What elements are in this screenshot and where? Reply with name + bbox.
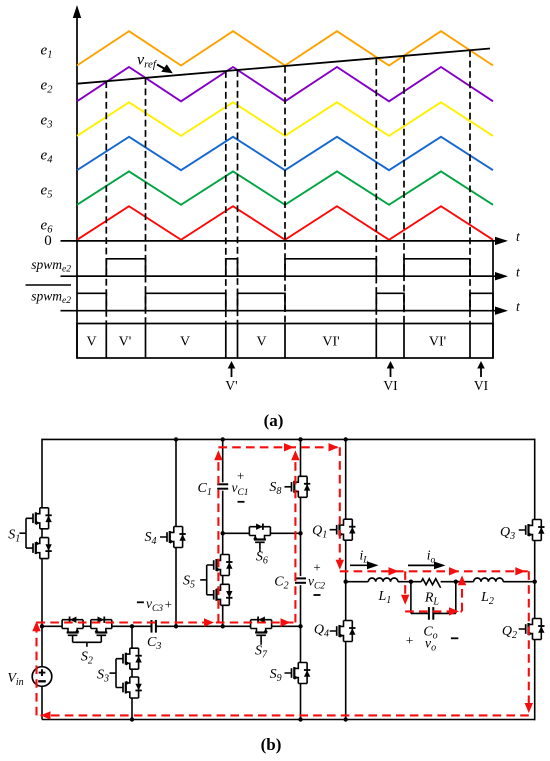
red path: RL loop up	[461, 579, 463, 612]
svg-text:V: V	[256, 335, 266, 350]
transistor S7 (body diode left)	[251, 617, 272, 643]
transistor S1 (top half, body diode up)	[26, 508, 52, 529]
current arrow io	[408, 562, 446, 570]
svg-text:Q2: Q2	[502, 624, 517, 641]
carrier wave e2	[77, 67, 493, 101]
svg-text:spwme2: spwme2	[31, 289, 71, 307]
svg-text:V': V'	[225, 378, 237, 393]
red arrowhead G3 right	[515, 567, 525, 575]
wire: Co box left side	[410, 582, 412, 614]
wire: S5 mid link	[222, 576, 224, 585]
wire: output seg1	[346, 581, 369, 583]
dashed crossing line 6	[375, 58, 377, 323]
wire: bottom rail	[42, 719, 535, 721]
label v_ref with arrow	[137, 52, 173, 74]
svg-text:(a): (a)	[264, 411, 284, 430]
svg-text:C3: C3	[147, 635, 161, 652]
wire: S6 link right	[270, 532, 300, 534]
transistor S9	[285, 663, 311, 684]
svg-text:S1: S1	[8, 528, 20, 545]
node top rail x=345.7	[344, 437, 348, 441]
svg-text:RL: RL	[424, 591, 440, 608]
svg-text:vC2: vC2	[308, 574, 325, 592]
capacitor C3	[152, 620, 156, 633]
gate bus S3	[110, 659, 117, 688]
wire: C2 to mid wire	[300, 585, 302, 662]
svg-text:e4: e4	[41, 148, 54, 166]
svg-text:S4: S4	[145, 530, 157, 547]
capacitor C2	[295, 578, 306, 582]
wire: left branch upper	[41, 439, 43, 508]
wire: left branch mid	[41, 559, 43, 667]
svg-text:V: V	[86, 335, 96, 350]
red arrowhead C up	[291, 450, 299, 460]
transistor S8	[285, 476, 311, 497]
transistor Q3	[519, 520, 545, 541]
svg-text:spwme2: spwme2	[31, 257, 71, 275]
svg-text:Q1: Q1	[312, 524, 327, 541]
wire: mid wire seg2	[112, 625, 151, 627]
svg-text:Q3: Q3	[500, 525, 515, 542]
gate stub S6	[259, 549, 261, 552]
svg-text:V: V	[180, 335, 190, 350]
label - vo	[451, 637, 458, 639]
red path: left vertical (segment A)	[35, 625, 37, 716]
node bottom rail x=345.7	[344, 717, 348, 721]
wire: Q4 to bottom rail	[345, 642, 347, 720]
svg-text:+: +	[237, 468, 244, 483]
dashed crossing line 7	[403, 56, 405, 324]
node mid wire x=222.7	[221, 624, 225, 628]
node bottom rail x=300.5	[298, 717, 302, 721]
wire: S2 mid link	[83, 625, 91, 627]
carrier wave e1	[77, 31, 493, 65]
transistor S6 (body diode right)	[249, 524, 270, 550]
red arrowhead B1 right	[204, 618, 214, 626]
node left-mid junction	[40, 624, 44, 628]
wire: output seg4	[503, 581, 535, 583]
capacitor C1	[217, 484, 228, 488]
transistor S1 (bottom half, body diode down)	[26, 538, 52, 559]
waveform inverted spwm_e2	[77, 293, 493, 310]
pointer arrow VI at x=481	[474, 361, 489, 393]
red path: C1 vertical up (segment D)	[217, 453, 219, 623]
box divider 3	[225, 324, 227, 359]
label +vC1-	[231, 468, 248, 502]
red arrowhead B2 right	[281, 618, 291, 626]
svg-text:vC3: vC3	[146, 596, 163, 614]
wire: output seg3	[441, 581, 474, 583]
node mid wire x=132	[130, 624, 134, 628]
wire: S9 to bottom rail	[300, 684, 302, 720]
svg-text:vref: vref	[137, 52, 158, 71]
svg-text:VI': VI'	[322, 335, 339, 350]
wire: C1 to S6 node	[222, 491, 224, 555]
node output x=410.9	[409, 580, 413, 584]
svg-text:L1: L1	[378, 589, 392, 606]
node bottom rail x=132	[130, 717, 134, 721]
wire: Q1 branch upper	[345, 439, 347, 519]
svg-text:+: +	[165, 596, 172, 611]
t-axis (inverted spwm_e2)	[61, 307, 509, 315]
red arrowhead E2 right	[329, 443, 339, 451]
svg-text:t: t	[516, 229, 521, 244]
gate bus S2	[73, 642, 102, 647]
red path: RL loop bottom	[405, 610, 462, 612]
carrier wave e5	[77, 171, 493, 204]
svg-text:S3: S3	[97, 668, 109, 685]
node mid wire x=300.5	[298, 624, 302, 628]
wire: mid wire seg3	[156, 625, 250, 627]
label inverted spwm_e2	[26, 285, 72, 306]
red path: output horizontal (segment G)	[340, 570, 529, 572]
svg-text:+: +	[313, 560, 320, 575]
transistor S3 (top half, body diode up)	[116, 648, 142, 669]
wire: S8 to S6 node	[300, 497, 302, 576]
wire: S1 mid link	[41, 529, 43, 538]
wire: Co box bottom right	[433, 612, 456, 614]
dashed crossing line 8	[469, 50, 471, 323]
box divider 8	[469, 324, 471, 359]
red arrowhead E1 right	[284, 443, 294, 451]
pointer arrow V' at x=231.5	[225, 361, 237, 393]
transistor S2 (left half, body diode left)	[62, 617, 83, 643]
gate stub S7	[260, 642, 262, 645]
wire: output seg2	[398, 581, 421, 583]
node output wire x=345.7	[344, 580, 348, 584]
transistor Q4	[330, 621, 356, 642]
red path: C2 vertical up (segment C)	[294, 453, 296, 623]
svg-text:V': V'	[119, 335, 132, 350]
capacitor Co	[429, 607, 433, 620]
wire: mid wire seg4	[272, 625, 301, 627]
svg-text:S6: S6	[256, 550, 268, 567]
svg-text:S7: S7	[255, 644, 268, 661]
svg-text:VI': VI'	[429, 335, 446, 350]
svg-text:S5: S5	[183, 574, 195, 591]
wire: top rail	[42, 438, 535, 440]
node top rail x=222.7	[221, 437, 225, 441]
svg-text:t: t	[516, 299, 521, 314]
wire: S4 branch lower	[175, 548, 177, 627]
svg-text:e6: e6	[41, 218, 54, 236]
dashed crossing line 5	[284, 66, 286, 324]
red arrowhead RL-loop up	[458, 575, 466, 585]
wire: Q3 to output wire	[534, 541, 536, 582]
red arrowhead H down	[525, 703, 533, 713]
inductor L1	[368, 578, 398, 582]
box divider 2	[145, 324, 147, 359]
t-axis (spwm_e2)	[61, 272, 509, 280]
waveform spwm_e2	[77, 259, 493, 276]
svg-text:e1: e1	[41, 43, 53, 61]
red arrowhead A up	[32, 621, 40, 631]
svg-text:e5: e5	[41, 183, 53, 201]
wire: Co box right side	[455, 582, 457, 614]
red arrowhead G1 right	[389, 567, 399, 575]
carrier wave e6	[77, 206, 493, 240]
red path: Q1 vertical down (segment F)	[339, 447, 341, 566]
dashed crossing line 1	[105, 81, 107, 323]
wire: right branch upper	[534, 439, 536, 520]
wire: Q2 to bottom rail	[534, 640, 536, 721]
node top rail x=176	[174, 437, 178, 441]
resistor RL	[421, 579, 440, 588]
wire: S3 to bottom rail	[131, 698, 133, 720]
dashed crossing line 4	[237, 70, 239, 323]
svg-text:VI: VI	[383, 378, 398, 393]
label -vC3+	[137, 596, 172, 614]
transistor S5 (top half, body diode up)	[207, 555, 233, 576]
svg-text:S2: S2	[81, 650, 93, 667]
wire: C1 branch upper	[222, 439, 224, 482]
wire: S8 branch upper	[300, 439, 302, 476]
svg-text:C1: C1	[198, 481, 212, 498]
transistor S4	[160, 527, 186, 548]
node S6 wire x=300.5	[298, 531, 302, 535]
box divider 7	[403, 324, 405, 359]
gate bus S5	[200, 565, 207, 595]
svg-text:(b): (b)	[261, 735, 282, 754]
inductor L2	[474, 578, 504, 582]
red path: bottom return (segment I)	[41, 714, 529, 716]
dashed crossing line 2	[145, 78, 147, 323]
red path: right vertical down (segment H)	[528, 571, 530, 709]
svg-text:e2: e2	[41, 78, 54, 96]
wire: output to Q4	[345, 582, 347, 621]
node output x=455.8	[454, 580, 458, 584]
svg-text:Q4: Q4	[314, 623, 329, 640]
svg-text:e3: e3	[41, 113, 53, 131]
wire: S3 branch upper	[131, 626, 133, 648]
voltage source Vin	[32, 667, 52, 687]
box divider 6	[375, 324, 377, 359]
wire: S3 mid link	[131, 669, 133, 677]
red path: top horizontal (segment E)	[218, 446, 339, 448]
wire: Co box bottom left	[411, 612, 429, 614]
svg-text:Vin: Vin	[7, 671, 23, 688]
transistor Q1	[330, 519, 356, 540]
node mid wire x=176	[174, 624, 178, 628]
box divider 4	[237, 324, 239, 359]
interval boxes frame	[77, 324, 493, 359]
red path: lower horizontal to C2 (segment B)	[37, 621, 296, 623]
node S6 wire x=222.7	[221, 531, 225, 535]
right boundary line	[492, 241, 494, 358]
transistor Q2	[519, 619, 545, 640]
svg-text:t: t	[516, 265, 521, 280]
gate bus S1	[20, 518, 27, 548]
box divider 1	[105, 324, 107, 359]
wire: Q1 to output wire	[345, 540, 347, 582]
red path: RL loop down	[404, 571, 406, 601]
wire: S6 link left	[223, 532, 250, 534]
pointer arrow VI at x=390.5	[383, 361, 398, 393]
wire: S4 branch upper	[175, 439, 177, 526]
transistor S3 (bottom half, body diode down)	[116, 677, 142, 698]
transistor S5 (bottom half, body diode down)	[207, 584, 233, 605]
wire: left branch lower	[41, 686, 43, 719]
reference v_ref line	[77, 49, 490, 84]
red arrowhead I left	[41, 711, 51, 719]
box divider 5	[284, 324, 286, 359]
red arrowhead D up	[214, 450, 222, 460]
wire: mid wire seg1	[42, 625, 62, 627]
svg-text:VI: VI	[474, 378, 489, 393]
red arrowhead RL-loop right	[449, 607, 459, 615]
svg-text:L2: L2	[480, 590, 494, 607]
t-axis (carriers)	[61, 237, 509, 245]
wire: output to Q2	[534, 582, 536, 619]
red arrowhead F down	[336, 560, 344, 570]
y-axis	[73, 5, 81, 358]
svg-text:+: +	[406, 633, 414, 648]
label +vC2-	[308, 560, 325, 596]
svg-text:S8: S8	[269, 480, 281, 497]
red arrowhead RL-loop down	[401, 595, 409, 605]
svg-text:C2: C2	[274, 575, 288, 592]
node top rail x=300.5	[298, 437, 302, 441]
transistor S2 (right half, body diode right)	[91, 617, 112, 643]
current arrow iL	[350, 561, 379, 569]
wire: S5 to mid wire	[222, 605, 224, 626]
svg-text:S9: S9	[270, 667, 282, 684]
carrier wave e4	[77, 137, 493, 170]
node output wire x=534.7	[533, 580, 537, 584]
dashed crossing line 3	[225, 71, 227, 323]
carrier wave e3	[77, 102, 493, 136]
red arrowhead G2 right	[449, 567, 459, 575]
